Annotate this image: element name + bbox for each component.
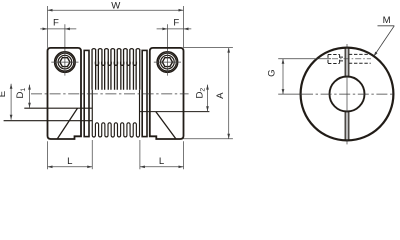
clamp screw left (socket head) bbox=[51, 51, 78, 76]
screw axis line bbox=[278, 58, 331, 60]
svg-text:L: L bbox=[67, 156, 73, 167]
centerline (side view) bbox=[31, 93, 189, 95]
svg-text:G: G bbox=[267, 69, 278, 76]
tapped hole M (dashed) bbox=[328, 54, 371, 63]
dimension E bbox=[0, 84, 12, 120]
dimension F (left) bbox=[40, 17, 76, 51]
right hub bbox=[150, 48, 184, 139]
svg-text:E: E bbox=[0, 91, 8, 97]
clamping slit (top) bbox=[344, 48, 346, 77]
svg-text:M: M bbox=[383, 15, 391, 26]
horizontal centerline (end view) bbox=[278, 93, 302, 95]
dimension G bbox=[267, 59, 285, 94]
bellows meander (bottom) bbox=[92, 90, 139, 137]
slit diagonal left hub bbox=[57, 108, 77, 139]
left hub bbox=[48, 48, 82, 139]
svg-text:F: F bbox=[53, 17, 59, 28]
dimension D2 bbox=[195, 85, 209, 112]
svg-text:F: F bbox=[173, 17, 179, 28]
left bellows collar bbox=[84, 50, 89, 136]
dimension L (left) bbox=[48, 140, 93, 169]
bellows valleys (top) bbox=[95, 62, 136, 66]
bore line left (D1 ref) bbox=[24, 107, 92, 109]
slit diagonal right hub bbox=[156, 112, 176, 139]
dimension L (right) bbox=[140, 140, 184, 169]
label M with leader bbox=[374, 15, 395, 57]
bore line right (D2 ref) bbox=[140, 111, 210, 113]
svg-text:L: L bbox=[159, 156, 165, 167]
end view outer circle bbox=[301, 48, 394, 141]
dimension W bbox=[48, 1, 184, 48]
right bellows collar bbox=[142, 50, 147, 136]
counterbore line left (E ref) bbox=[4, 120, 93, 122]
clamp screw right (socket head) bbox=[154, 51, 181, 76]
clamping slit (bottom) bbox=[344, 112, 346, 141]
dimension A bbox=[184, 48, 233, 139]
svg-text:W: W bbox=[111, 1, 121, 12]
bellows convolutions (top) bbox=[92, 49, 140, 90]
dimension F (right) bbox=[157, 17, 192, 51]
end view bore bbox=[330, 77, 365, 112]
dimension D1 bbox=[15, 85, 31, 108]
vertical centerline (end view) bbox=[346, 44, 348, 144]
svg-text:A: A bbox=[215, 92, 226, 99]
